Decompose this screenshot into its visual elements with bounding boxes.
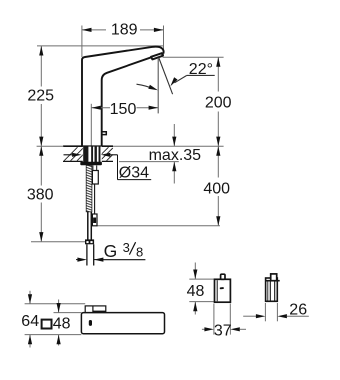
dimension 37 <box>202 322 246 339</box>
dimension 380 <box>27 146 85 242</box>
connection hose upper <box>88 212 92 240</box>
control box body (front view) <box>215 279 231 302</box>
dimension 225 <box>27 46 54 146</box>
wire: 37 extension lines <box>213 304 215 335</box>
wire: extension line bracket top <box>25 303 86 305</box>
svg-text:8: 8 <box>136 245 143 260</box>
dimension 150 <box>91 101 158 146</box>
dimension 189 <box>82 22 163 39</box>
control box body (narrow side) <box>266 278 278 301</box>
indicator dash (front view) <box>220 287 224 289</box>
svg-text:400: 400 <box>203 180 230 197</box>
wire: max.35 top extension (deck top, thin continuation) <box>113 145 224 147</box>
supply tube upper fitting <box>92 165 98 184</box>
wire: extension line box bottom <box>25 334 82 336</box>
wire: 26 extension lines <box>264 303 266 321</box>
wire: extension line front top <box>189 278 214 280</box>
wire: 200 top extension line (aerator outlet level) <box>163 56 224 58</box>
svg-text:Ø34: Ø34 <box>119 165 149 182</box>
svg-text:225: 225 <box>27 88 54 105</box>
wire: 400 bottom extension line from hose fitting <box>97 225 221 227</box>
dimension 48 arrows (front view) <box>193 263 197 315</box>
cable nub on top (front view) <box>221 274 225 279</box>
top lip line (narrow side) <box>265 280 280 282</box>
inner edge line (front view) <box>216 280 218 301</box>
wire: extension line front bottom <box>189 301 214 303</box>
square symbol <box>42 320 52 329</box>
wire: max.35 bottom extension (deck underside) <box>119 161 179 163</box>
svg-text:G: G <box>104 241 118 261</box>
wire: aerator plumb reference line (150 right extension) <box>157 59 159 114</box>
label G 3/8 with leader <box>76 240 145 262</box>
diameter 34 arrows at deck <box>64 153 118 157</box>
dimension 400 <box>203 146 230 225</box>
wire: top height extension line (225 top / spout apex) <box>37 45 164 47</box>
wire: 189 dimension right extension line <box>163 26 165 57</box>
svg-text:48: 48 <box>187 283 205 300</box>
counter deck slab (hatched) <box>63 146 113 161</box>
svg-text:189: 189 <box>111 22 138 39</box>
svg-text:max.35: max.35 <box>149 147 202 164</box>
sensor clip on body right edge <box>102 132 107 135</box>
svg-text:48: 48 <box>53 315 71 332</box>
wire: extension line box top <box>54 312 82 314</box>
wire: tube line down to check valve <box>94 184 96 214</box>
svg-text:200: 200 <box>205 95 232 112</box>
mounting shank through deck <box>83 146 102 162</box>
faucet outline (spout and body) <box>82 47 164 147</box>
label max.35 with arrows <box>149 124 202 184</box>
svg-text:26: 26 <box>289 302 307 319</box>
connection hose end <box>87 244 94 265</box>
check valve fitting <box>92 214 97 226</box>
inner vertical lines (narrow side) <box>267 282 269 301</box>
indicator slot on control box <box>89 320 92 326</box>
angle arc arrow pointing at plumb line <box>137 84 154 89</box>
svg-text:150: 150 <box>110 101 137 118</box>
aerator (mousseur at spout tip, 22 deg) <box>151 53 163 59</box>
svg-text:64: 64 <box>21 313 39 330</box>
wire: 189 dimension left extension line <box>81 26 83 58</box>
dimension 200 <box>205 57 232 146</box>
mounting bracket on control box <box>85 306 106 313</box>
svg-text:3: 3 <box>123 240 130 255</box>
svg-text:37: 37 <box>214 322 232 339</box>
flange nut under deck <box>80 162 102 165</box>
label 22 deg with leader <box>169 61 215 87</box>
control box body (side view) <box>81 313 164 334</box>
wire: 22 deg spray axis line <box>159 58 173 95</box>
dimension 48 arrows (side view) <box>57 300 61 346</box>
cable nub on top (narrow side) <box>271 274 277 281</box>
faucet spout underside and body right edge <box>102 57 152 146</box>
dimension 64 arrows <box>28 291 32 348</box>
label diameter 34 with leader <box>118 155 152 182</box>
svg-text:380: 380 <box>27 186 54 203</box>
hose union nut <box>85 239 94 244</box>
threaded shank rod <box>86 165 92 211</box>
dimension 26 <box>243 302 309 319</box>
